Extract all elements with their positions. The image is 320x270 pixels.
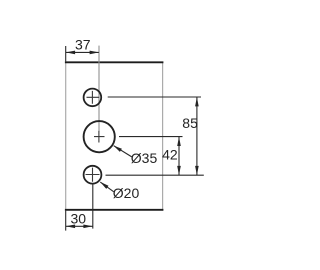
svg-text:Ø20: Ø20 — [113, 185, 140, 201]
arrow right of dim 30 — [83, 225, 92, 229]
extension line from bottom hole to the right for dims 42 and 85 — [106, 174, 204, 176]
hole circle bottom (small, diameter 20) — [84, 166, 102, 184]
leader arrow for diameter label 35 — [114, 146, 122, 152]
plate left edge — [65, 62, 67, 211]
crosshair top hole — [87, 91, 100, 104]
hole circle middle (large, diameter 35) — [84, 121, 115, 152]
leader line for diameter label 20 — [100, 182, 114, 192]
extension line left below plate for dim 30 — [65, 211, 67, 231]
plate bottom edge — [65, 209, 163, 211]
leader arrow for diameter label 20 — [100, 182, 108, 189]
leader line for diameter label 35 — [114, 146, 132, 157]
hole circle top (small) — [84, 89, 102, 107]
dimension line 30 — [66, 225, 93, 227]
arrow top of dim 42 — [177, 137, 181, 146]
extension line from bottom hole down for dim 30 — [92, 184, 94, 229]
extension line from large hole to the right for dim 42 — [119, 136, 183, 138]
arrow left of dim 30 — [66, 225, 75, 229]
arrow top of dim 85 — [195, 97, 199, 106]
arrow bottom of dim 42 — [177, 166, 181, 175]
dimension line 37 — [66, 51, 99, 53]
crosshair large hole — [94, 131, 105, 143]
svg-text:30: 30 — [71, 210, 87, 226]
crosshair bottom hole — [86, 168, 100, 182]
plate top edge — [65, 61, 163, 63]
plate right edge — [162, 62, 164, 211]
svg-text:37: 37 — [75, 37, 91, 53]
svg-text:Ø35: Ø35 — [131, 150, 158, 166]
svg-text:42: 42 — [162, 147, 178, 163]
dimension line 42 — [178, 137, 180, 175]
svg-text:85: 85 — [182, 115, 198, 131]
extension line from top hole to the right for dim 85 — [108, 96, 201, 98]
vertical centerline through large hole — [98, 46, 100, 132]
dimension line 85 — [196, 97, 198, 175]
arrow left of dim 37 — [66, 51, 75, 55]
arrow right of dim 37 — [90, 51, 99, 55]
extension line left above plate for dim 37 — [65, 46, 67, 61]
arrow bottom of dim 85 — [195, 166, 199, 175]
